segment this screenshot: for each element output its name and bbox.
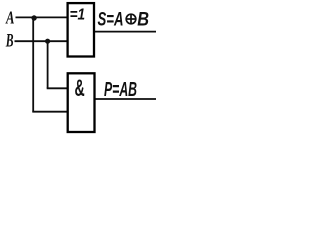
svg-text:P=AB: P=AB <box>104 79 137 101</box>
svg-text:S=A: S=A <box>98 10 124 31</box>
wire A vertical branch <box>32 17 34 111</box>
wire XOR output S <box>94 31 157 33</box>
svg-text:B: B <box>137 10 149 31</box>
xor symbol circled plus <box>126 14 136 24</box>
svg-text:=1: =1 <box>70 7 86 24</box>
op AND gate U2 box <box>68 73 95 132</box>
svg-text:B: B <box>5 32 13 52</box>
wire A branch horizontal to AND lower input <box>32 111 68 113</box>
node A junction dot <box>31 15 36 20</box>
node B junction dot <box>45 39 50 44</box>
wire A horizontal input <box>16 16 68 18</box>
wire B branch horizontal to AND upper input <box>47 87 68 89</box>
svg-text:&: & <box>75 75 85 102</box>
wire B vertical branch <box>47 41 49 88</box>
svg-text:A: A <box>5 8 14 28</box>
wire AND output P <box>94 98 157 100</box>
op XOR gate U1 box <box>68 3 94 56</box>
wire B horizontal input <box>15 40 68 42</box>
